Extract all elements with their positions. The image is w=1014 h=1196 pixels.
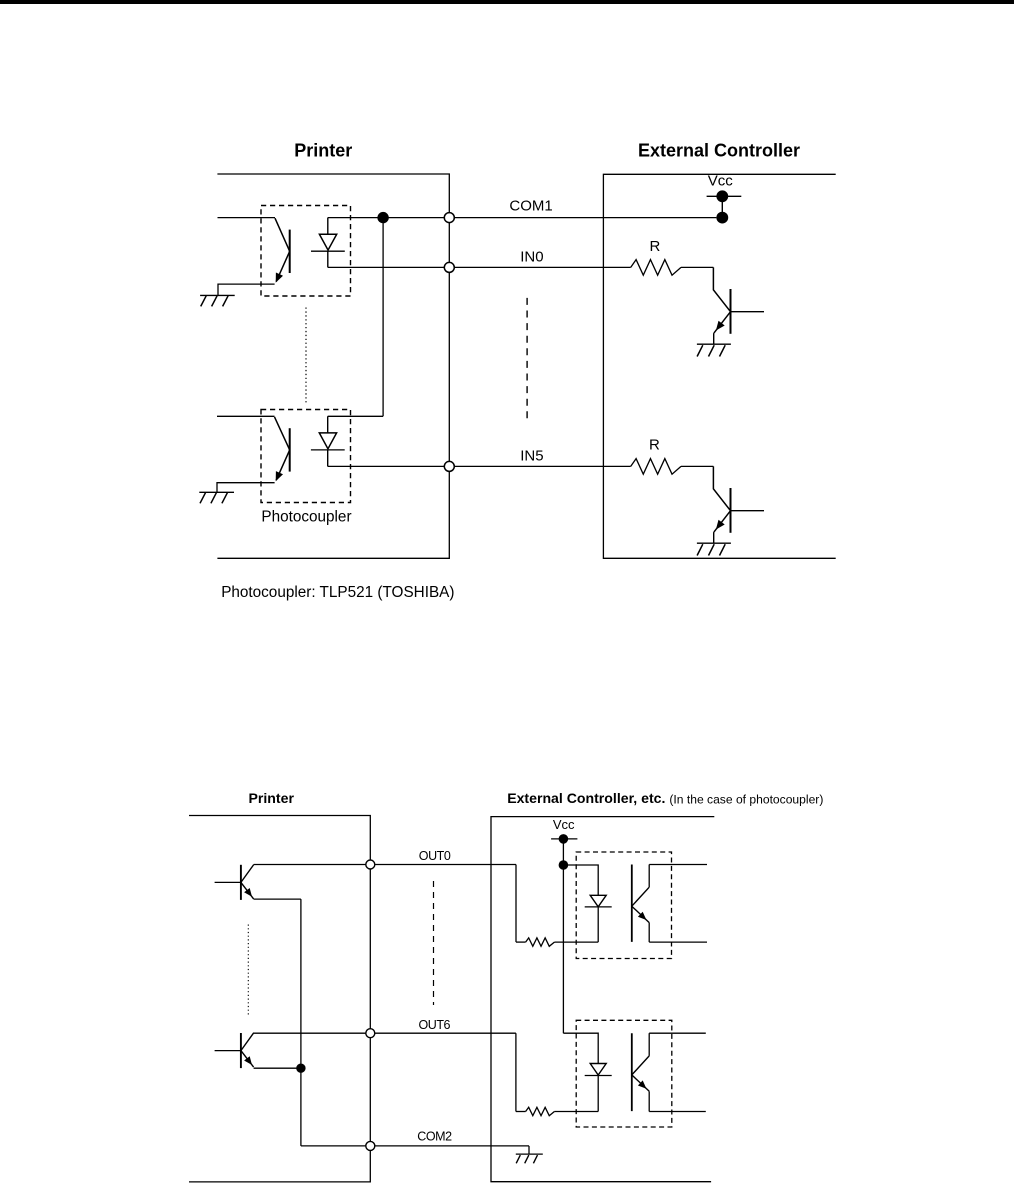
svg-text:External Controller, etc.: External Controller, etc. [507,790,665,806]
wire PC3 emitter out [649,941,707,943]
photocoupler PC4 dashed outline [576,1020,672,1127]
Vcc supply symbol (top diagram) [707,190,742,223]
ground G3 (external, IN0 row) [697,344,731,356]
wire OUT0 (collector to external) [254,864,516,866]
wire Vcc rail to PC4 anode [563,1033,598,1063]
resistor R (OUT0 row) [526,938,555,946]
svg-text:(In the case of photocoupler): (In the case of photocoupler) [669,792,823,806]
external controller enclosure (top diagram, open right side) [603,174,835,558]
ground G4 (external, IN5 row) [697,543,731,555]
photocoupler PC2 LED [311,416,345,466]
wire lead into resistor (OUT0) [516,941,526,943]
svg-text:OUT6: OUT6 [419,1018,451,1032]
transistor Q3 (printer output, OUT0) [215,865,254,900]
terminal circle OUT0 [366,860,375,869]
Vcc supply symbol (bottom diagram) [551,834,577,1033]
transistor Q4 (printer output, OUT6) [215,1033,254,1068]
wire PC4 emitter out [649,1111,706,1113]
wire resistor to transistor Q1 [681,266,713,268]
ground G2 (printer side, PC2) [199,492,234,503]
wire IN0 (PC1 cathode to resistor) [328,266,631,268]
wire resistor to LED cathode node (OUT6) [554,1111,598,1113]
wire IN5 (PC2 cathode to resistor) [328,465,631,467]
wire emitter bus vertical (to COM2) [300,1068,302,1146]
wire PC1 phototransistor collector stub [218,217,276,219]
wire PC1 emitter to ground [218,284,275,295]
svg-text:Printer: Printer [249,790,295,806]
svg-text:R: R [650,238,661,255]
photocoupler PC3 phototransistor [632,865,649,943]
wire Q4 emitter [254,1067,301,1069]
resistor R (IN5 row) [631,459,681,475]
photocoupler PC4 LED [585,1064,612,1112]
photocoupler PC3 LED [585,895,612,942]
ground G1 (printer side, PC1) [200,295,235,306]
svg-text:OUT0: OUT0 [419,849,451,863]
wire Vcc dot to PC3 anode [563,865,598,895]
dashed separator (IN0 ... IN5) [526,298,528,422]
wire anode branch horizontal to PC2 LED [328,415,383,417]
wire COM2 [301,1145,529,1147]
dotted separator between PC1 and PC2 [305,308,307,404]
wire PC3 collector out [649,864,707,866]
wire emitter bus vertical (Q3 to Q4) [300,899,302,1068]
wire PC2 emitter to ground [217,483,275,493]
svg-text:Vcc: Vcc [553,817,575,832]
external controller enclosure (bottom diagram) [491,817,714,1182]
wire COM2 to ground [528,1146,530,1154]
svg-text:Vcc: Vcc [708,173,734,190]
wire lead into resistor (OUT6) [516,1111,526,1113]
ground G5 (external, COM2) [516,1154,543,1163]
wire OUT0 drop to resistor [515,865,517,943]
wire PC2 phototransistor collector stub [217,415,275,417]
wire OUT6 drop to resistor [515,1033,517,1111]
photocoupler PC2 phototransistor [275,417,290,481]
printer enclosure (bottom diagram) [189,816,370,1182]
svg-text:COM1: COM1 [509,198,552,215]
photocoupler PC4 phototransistor [632,1033,649,1111]
transistor Q2 (external controller, IN5 row) [713,466,764,532]
terminal circle COM1 [444,213,454,223]
dashed separator (OUT0 ... OUT6) [433,881,435,1005]
wire COM1 rail [328,217,717,219]
terminal circle OUT6 [366,1029,375,1038]
wire anode branch vertical (COM1 to PC2) [382,218,384,417]
junction dot COM1 / anode branch [377,212,388,223]
page header bar [0,0,1014,4]
wire resistor to transistor Q2 [681,465,713,467]
wire Q2 emitter to ground [713,532,715,543]
terminal circle IN0 [444,262,454,272]
svg-text:External Controller: External Controller [638,140,800,160]
junction dot emitter bus [296,1064,305,1073]
wire Q1 emitter to ground [713,333,715,344]
svg-text:Printer: Printer [294,140,352,160]
transistor Q1 (external controller, IN0 row) [713,267,764,333]
wire resistor to LED cathode node (OUT0) [554,941,598,943]
wire Q3 emitter [254,898,301,900]
resistor R (OUT6 row) [526,1107,555,1115]
dotted separator between Q3 and Q4 [247,925,249,1016]
wire PC4 collector out [649,1032,706,1034]
photocoupler PC1 LED [311,218,345,268]
photocoupler PC2 dashed outline [261,410,351,503]
svg-text:IN0: IN0 [520,249,543,266]
resistor R (IN0 row) [631,260,681,276]
svg-text:R: R [649,436,660,453]
photocoupler PC3 dashed outline [576,852,671,959]
photocoupler PC1 phototransistor [275,218,290,282]
terminal circle IN5 [444,461,454,471]
terminal circle COM2 [366,1141,375,1150]
svg-text:IN5: IN5 [520,447,543,464]
svg-text:COM2: COM2 [417,1130,452,1144]
photocoupler PC1 dashed outline [261,206,351,297]
svg-text:Photocoupler: Photocoupler [261,508,351,525]
printer enclosure (top diagram, open left side) [217,174,449,558]
wire OUT6 (collector to external) [254,1032,516,1034]
svg-text:Photocoupler: TLP521 (TOSHIBA): Photocoupler: TLP521 (TOSHIBA) [221,584,454,601]
